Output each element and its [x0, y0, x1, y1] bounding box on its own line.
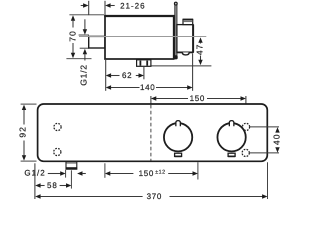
svg-text:92: 92	[17, 126, 27, 138]
svg-text:47: 47	[195, 44, 205, 56]
svg-text:40: 40	[272, 133, 282, 145]
svg-text:G1/2: G1/2	[79, 64, 89, 85]
svg-text:140: 140	[140, 83, 155, 92]
svg-text:62: 62	[122, 71, 132, 80]
svg-text:±12: ±12	[155, 170, 165, 176]
svg-text:70: 70	[68, 30, 78, 42]
svg-text:58: 58	[47, 181, 58, 190]
svg-text:21-26: 21-26	[120, 1, 145, 10]
svg-text:370: 370	[147, 192, 162, 200]
svg-text:150: 150	[139, 169, 154, 178]
svg-text:150: 150	[190, 94, 205, 103]
